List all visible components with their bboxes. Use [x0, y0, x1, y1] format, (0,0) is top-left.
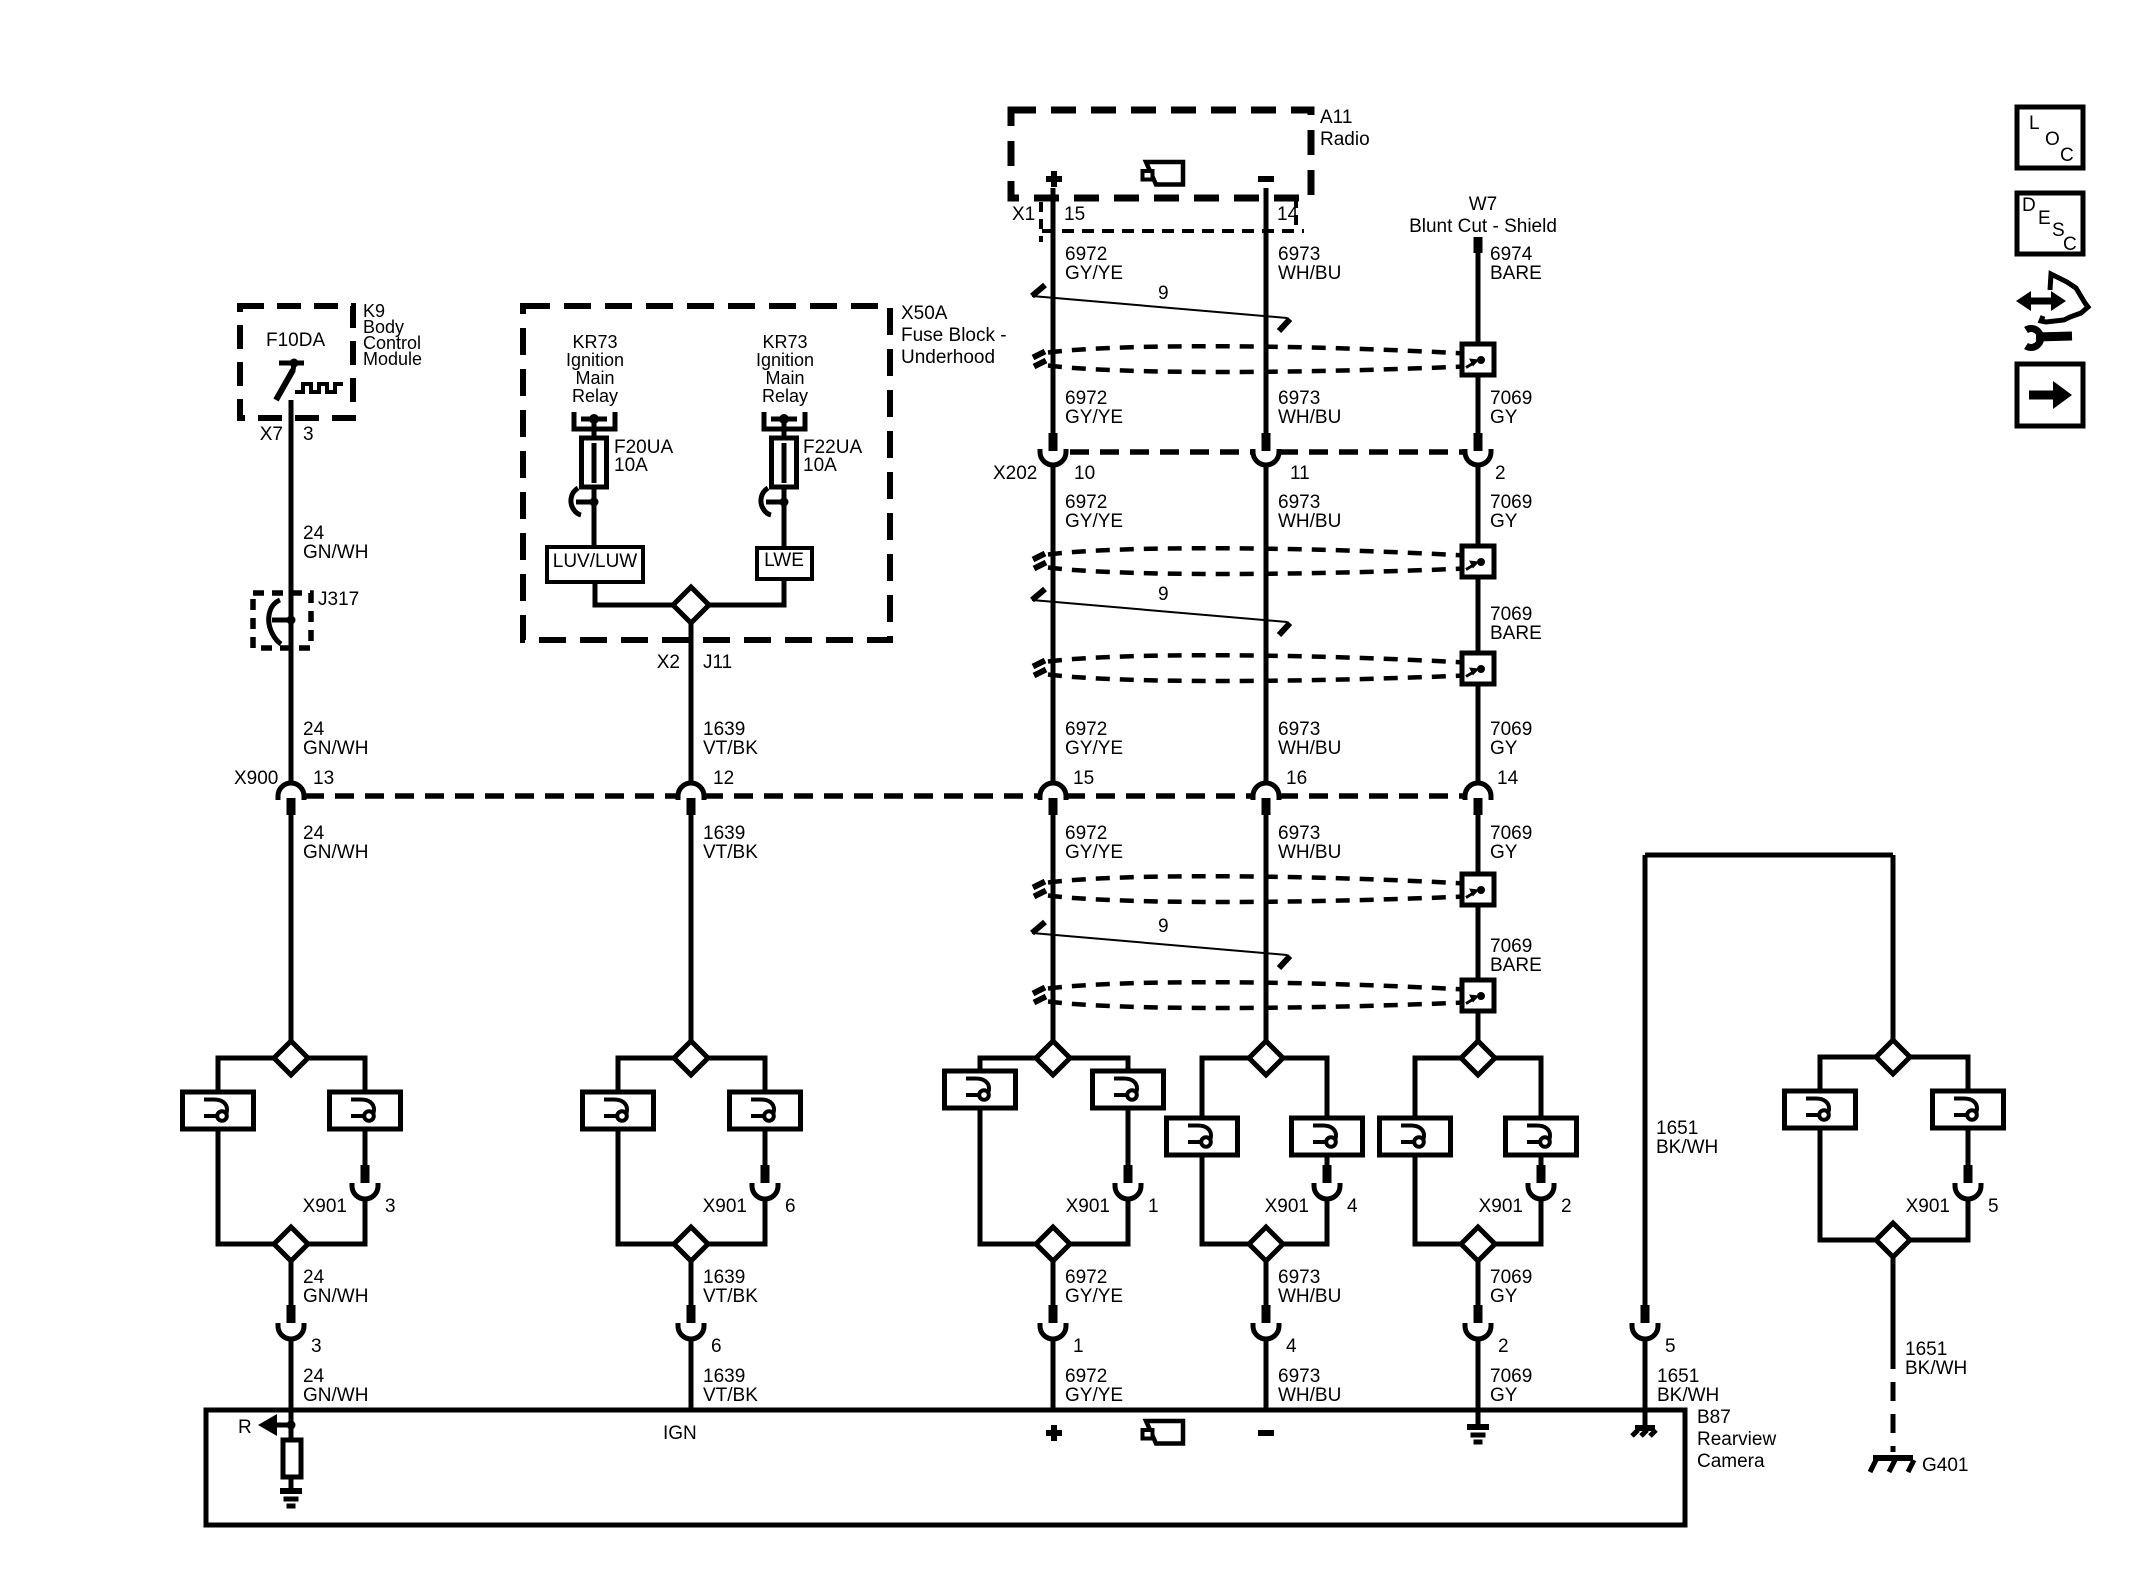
svg-text:GY: GY	[1490, 407, 1518, 428]
svg-text:1651: 1651	[1657, 1366, 1699, 1387]
svg-text:O: O	[2045, 129, 2060, 150]
wire merge diamond below X901 pin 4	[1249, 1227, 1283, 1261]
wire splice diamond above X901 group pin 2	[1461, 1041, 1495, 1075]
wire 1639 VT/BK to connector 6	[689, 1261, 694, 1305]
connector X900 pin 14	[1465, 783, 1491, 800]
wire LUV/LUW to splice diamond J11	[595, 582, 674, 605]
wire splice diamond above X901 group pin 6	[674, 1041, 708, 1075]
wire 1639 VT/BK into B87	[689, 1338, 694, 1412]
svg-text:GY/YE: GY/YE	[1065, 842, 1123, 863]
splice J317	[253, 593, 311, 648]
component box K9 Body Control Module	[240, 306, 353, 418]
wire merge diamond below X901 pin 3	[274, 1227, 308, 1261]
svg-text:X50A: X50A	[901, 303, 948, 324]
svg-text:24: 24	[303, 1267, 325, 1288]
svg-text:BK/WH: BK/WH	[1657, 1385, 1719, 1406]
svg-text:GN/WH: GN/WH	[303, 842, 368, 863]
svg-text:KR73: KR73	[572, 332, 617, 352]
in-line connector pin 1	[1049, 1305, 1058, 1323]
wire left branch down (pin 2 group)	[1415, 1155, 1461, 1244]
svg-text:6973: 6973	[1278, 719, 1320, 740]
wire 6972 GY/YE to connector 1	[1051, 1261, 1056, 1305]
wire below X901 pin 6	[708, 1199, 765, 1244]
svg-text:7069: 7069	[1490, 604, 1532, 625]
svg-text:GY/YE: GY/YE	[1065, 263, 1123, 284]
net box LWE	[757, 548, 812, 579]
svg-text:9: 9	[1158, 584, 1169, 605]
svg-text:GY/YE: GY/YE	[1065, 1385, 1123, 1406]
shield termination box 1	[1462, 344, 1494, 375]
svg-text:X901: X901	[1265, 1196, 1309, 1217]
svg-text:GY/YE: GY/YE	[1065, 407, 1123, 428]
connector X901 pin 1	[1124, 1165, 1133, 1183]
wire 6972 GY/YE X202 to X900	[1051, 465, 1056, 783]
wire right branch down to connector X901 pin 1	[1126, 1108, 1131, 1165]
svg-text:2: 2	[1561, 1196, 1572, 1217]
svg-text:GN/WH: GN/WH	[303, 542, 368, 563]
svg-text:6972: 6972	[1065, 1267, 1107, 1288]
twisted pair ellipse to shield 2	[1048, 548, 1465, 555]
wire 6972 GY/YE from A11 + terminal	[1051, 188, 1056, 433]
shield termination box 2	[1462, 546, 1494, 577]
svg-text:Ignition: Ignition	[756, 350, 814, 370]
icon DESC button	[2017, 193, 2083, 254]
terminal - inside B87	[1258, 1430, 1274, 1436]
svg-text:1639: 1639	[703, 719, 745, 740]
svg-text:GY/YE: GY/YE	[1065, 511, 1123, 532]
harness connector box right (pin 3 group)	[330, 1092, 401, 1129]
wire below X901 pin 3	[308, 1199, 365, 1244]
svg-text:6973: 6973	[1278, 1366, 1320, 1387]
connector X901 pin 6	[761, 1165, 770, 1183]
svg-text:1651: 1651	[1905, 1339, 1947, 1360]
svg-text:6: 6	[785, 1196, 796, 1217]
wire right branch to harness box (pin 4 group)	[1283, 1058, 1327, 1118]
svg-text:WH/BU: WH/BU	[1278, 263, 1341, 284]
svg-text:7069: 7069	[1490, 823, 1532, 844]
wire 1651 BK/WH below right splice	[1891, 1257, 1896, 1350]
harness connector box left (pin 3 group)	[183, 1092, 254, 1129]
svg-text:14: 14	[1497, 768, 1519, 789]
svg-text:6972: 6972	[1065, 1366, 1107, 1387]
harness connector box left (pin 6 group)	[583, 1092, 654, 1129]
harness connector box right (pin 1 group)	[1093, 1071, 1164, 1108]
svg-text:D: D	[2022, 195, 2036, 216]
svg-text:WH/BU: WH/BU	[1278, 738, 1341, 759]
svg-text:1639: 1639	[703, 823, 745, 844]
wire left branch to harness box (pin 5 group)	[1820, 1057, 1876, 1091]
ground G401	[1873, 1455, 1913, 1461]
wire fuse F22UA to LWE	[782, 502, 787, 548]
svg-text:1: 1	[1073, 1336, 1084, 1357]
svg-text:WH/BU: WH/BU	[1278, 1286, 1341, 1307]
component box B87 Rearview Camera	[206, 1410, 1685, 1525]
svg-text:X1: X1	[1012, 204, 1035, 225]
wire left branch to harness box (pin 2 group)	[1415, 1058, 1461, 1118]
svg-text:7069: 7069	[1490, 1267, 1532, 1288]
svg-text:1: 1	[1148, 1196, 1159, 1217]
svg-text:C: C	[2063, 234, 2077, 255]
connector X900 pin 15	[1040, 783, 1066, 800]
wire left branch to harness box (pin 3 group)	[218, 1058, 274, 1092]
svg-text:GY: GY	[1490, 842, 1518, 863]
resistor inside B87	[289, 1425, 294, 1440]
svg-text:VT/BK: VT/BK	[703, 842, 758, 863]
wire merge diamond below X901 pin 6	[674, 1227, 708, 1261]
svg-text:X901: X901	[1479, 1196, 1523, 1217]
twisted pair note 9 upper	[1032, 296, 1287, 318]
camera icon inside A11	[1146, 162, 1183, 185]
wire below X901 pin 1	[1070, 1199, 1128, 1244]
wire 6972 GY/YE X900 to splice	[1051, 815, 1056, 1041]
wire 6973 WH/BU X202 to X900	[1264, 465, 1269, 783]
svg-text:10A: 10A	[614, 455, 648, 476]
connector X202 pin 2	[1474, 433, 1483, 451]
svg-text:LWE: LWE	[764, 550, 804, 571]
wire 7069 GY into B87	[1476, 1338, 1481, 1412]
terminal + inside B87	[1046, 1430, 1062, 1436]
svg-text:7069: 7069	[1490, 388, 1532, 409]
chassis ground below 1651 BK/WH entry	[1643, 1412, 1648, 1427]
svg-text:VT/BK: VT/BK	[703, 1385, 758, 1406]
wire 1639 VT/BK X900 to splice	[689, 815, 694, 1041]
svg-text:7069: 7069	[1490, 719, 1532, 740]
svg-text:3: 3	[311, 1336, 322, 1357]
svg-text:W7: W7	[1469, 194, 1498, 215]
twisted pair ellipse to shield 1	[1048, 346, 1465, 353]
svg-text:GY: GY	[1490, 738, 1518, 759]
svg-text:LUV/LUW: LUV/LUW	[553, 551, 638, 572]
svg-text:X901: X901	[703, 1196, 747, 1217]
relay contact and fuse F22UA	[764, 412, 805, 429]
wire 7069 GY X900 to splice	[1476, 815, 1481, 1041]
svg-text:WH/BU: WH/BU	[1278, 842, 1341, 863]
svg-text:6: 6	[711, 1336, 722, 1357]
svg-text:GY: GY	[1490, 511, 1518, 532]
wire 24 GN/WH to connector 3	[289, 1261, 294, 1305]
svg-text:IGN: IGN	[663, 1423, 697, 1444]
svg-text:15: 15	[1064, 204, 1085, 225]
svg-text:J11: J11	[703, 652, 732, 673]
svg-text:7069: 7069	[1490, 936, 1532, 957]
wire 6973 WH/BU into B87	[1264, 1338, 1269, 1412]
wire below X901 pin 5	[1910, 1199, 1968, 1240]
terminal - inside A11	[1258, 176, 1274, 182]
component box X50A Fuse Block - Underhood	[523, 306, 890, 640]
svg-text:BARE: BARE	[1490, 263, 1542, 284]
svg-text:WH/BU: WH/BU	[1278, 407, 1341, 428]
wire below X901 pin 2	[1495, 1199, 1541, 1244]
connector band X900	[305, 793, 678, 799]
svg-text:KR73: KR73	[762, 332, 807, 352]
svg-text:3: 3	[385, 1196, 396, 1217]
fuse element F10DA symbol	[279, 361, 304, 366]
svg-text:Radio: Radio	[1320, 129, 1370, 150]
wire 6973 WH/BU X900 to splice	[1264, 815, 1269, 1041]
relay contact and fuse F20UA	[574, 412, 615, 429]
svg-text:3: 3	[303, 424, 314, 445]
svg-text:6974: 6974	[1490, 244, 1533, 265]
svg-text:6973: 6973	[1278, 388, 1320, 409]
svg-text:6972: 6972	[1065, 388, 1107, 409]
component box A11 Radio	[1011, 110, 1311, 198]
svg-text:X2: X2	[657, 652, 680, 673]
harness connector box left (pin 2 group)	[1380, 1118, 1451, 1155]
svg-text:GN/WH: GN/WH	[303, 738, 368, 759]
svg-text:X7: X7	[260, 424, 283, 445]
wire left branch down (pin 6 group)	[618, 1129, 674, 1244]
wire left branch to harness box (pin 4 group)	[1202, 1058, 1249, 1118]
svg-text:5: 5	[1665, 1336, 1676, 1357]
svg-text:6973: 6973	[1278, 492, 1320, 513]
svg-text:Camera: Camera	[1697, 1451, 1765, 1472]
twisted pair note 9 lower	[1032, 933, 1287, 955]
wire right branch to harness box (pin 2 group)	[1495, 1058, 1541, 1118]
connector X900 pin 12	[678, 783, 704, 800]
svg-text:X900: X900	[234, 768, 278, 789]
wire 7069 GY to connector 2	[1476, 1261, 1481, 1305]
svg-text:6972: 6972	[1065, 823, 1107, 844]
svg-text:9: 9	[1158, 283, 1169, 304]
twisted pair ellipse to shield 5	[1048, 982, 1465, 989]
connector X901 pin 4	[1323, 1165, 1332, 1183]
harness connector box right (pin 6 group)	[730, 1092, 801, 1129]
wire right branch down to connector X901 pin 4	[1325, 1155, 1330, 1165]
svg-text:15: 15	[1073, 768, 1094, 789]
wire 7069 GY X202 to X900	[1476, 465, 1481, 783]
splice diamond J11	[673, 587, 709, 623]
svg-text:Underhood: Underhood	[901, 347, 995, 368]
connector X901 pin 3	[361, 1165, 370, 1183]
wire J11 to X2 exit	[689, 623, 694, 783]
wire left branch to harness box (pin 6 group)	[618, 1058, 674, 1092]
wire LWE to splice diamond J11	[708, 579, 784, 605]
ground symbol inside B87 left	[289, 1477, 294, 1490]
svg-text:J317: J317	[318, 589, 359, 610]
svg-text:BARE: BARE	[1490, 623, 1542, 644]
wire 6973 WH/BU from A11 - terminal	[1264, 188, 1269, 433]
net box LUV/LUW	[547, 547, 643, 582]
svg-text:12: 12	[713, 768, 734, 789]
svg-text:6973: 6973	[1278, 244, 1320, 265]
harness connector box left (pin 1 group)	[945, 1071, 1016, 1108]
icon harness routing (arrows wrench)	[2031, 298, 2051, 305]
wire 1651 BK/WH left vertical	[1643, 855, 1648, 1305]
svg-text:1639: 1639	[703, 1267, 745, 1288]
svg-text:14: 14	[1277, 204, 1299, 225]
svg-text:BK/WH: BK/WH	[1656, 1137, 1718, 1158]
svg-text:6973: 6973	[1278, 1267, 1320, 1288]
connector band X1 of A11	[1042, 229, 1304, 233]
wire from F10DA to K9 box edge	[289, 400, 294, 418]
wire right branch down to connector X901 pin 6	[763, 1129, 768, 1165]
wire left branch down (pin 4 group)	[1202, 1155, 1249, 1244]
wire 24 GN/WH from K9 to X900	[289, 418, 294, 783]
svg-text:24: 24	[303, 1366, 325, 1387]
in-line connector pin 2	[1474, 1305, 1483, 1323]
svg-text:G401: G401	[1922, 1455, 1968, 1476]
connector X900 pin 16	[1253, 783, 1279, 800]
wire 1651 BK/WH into B87	[1643, 1338, 1648, 1412]
svg-text:X202: X202	[993, 463, 1037, 484]
wire 6972 GY/YE into B87	[1051, 1338, 1056, 1412]
svg-text:BK/WH: BK/WH	[1905, 1358, 1967, 1379]
svg-text:F10DA: F10DA	[266, 330, 325, 351]
svg-text:L: L	[2029, 113, 2040, 134]
connector X901 pin 5	[1964, 1165, 1973, 1183]
wire dashed to G401	[1891, 1350, 1896, 1452]
svg-text:A11: A11	[1320, 107, 1352, 128]
wire splice diamond above X901 group pin 5	[1876, 1040, 1910, 1074]
svg-text:Module: Module	[363, 349, 422, 369]
svg-text:2: 2	[1495, 463, 1506, 484]
harness connector box right (pin 2 group)	[1506, 1118, 1577, 1155]
svg-text:4: 4	[1286, 1336, 1297, 1357]
wire left branch down (pin 3 group)	[218, 1129, 274, 1244]
in-line connector pin 6	[687, 1305, 696, 1323]
svg-text:X901: X901	[1906, 1196, 1950, 1217]
svg-text:B87: B87	[1697, 1407, 1731, 1428]
svg-text:R: R	[238, 1417, 252, 1438]
svg-text:Fuse Block -: Fuse Block -	[901, 325, 1007, 346]
svg-text:13: 13	[313, 768, 334, 789]
camera icon inside B87	[1146, 1421, 1183, 1444]
svg-text:24: 24	[303, 823, 325, 844]
wire right branch vertical to splice	[1891, 855, 1896, 1040]
svg-text:7069: 7069	[1490, 492, 1532, 513]
svg-text:Relay: Relay	[572, 386, 618, 406]
harness connector box left (pin 4 group)	[1167, 1118, 1238, 1155]
svg-text:Blunt Cut - Shield: Blunt Cut - Shield	[1409, 216, 1557, 237]
shield termination box 5	[1462, 980, 1494, 1011]
wire merge diamond below X901 pin 1	[1036, 1227, 1070, 1261]
wire left branch down (pin 1 group)	[980, 1108, 1036, 1244]
svg-text:24: 24	[303, 719, 325, 740]
svg-text:WH/BU: WH/BU	[1278, 1385, 1341, 1406]
connector X900 pin 13	[278, 783, 304, 800]
wire splice diamond above X901 group pin 4	[1249, 1041, 1283, 1075]
svg-text:6972: 6972	[1065, 244, 1107, 265]
terminal + inside A11	[1046, 176, 1062, 182]
wire right branch to harness box (pin 6 group)	[708, 1058, 765, 1092]
svg-text:Main: Main	[765, 368, 804, 388]
svg-text:6972: 6972	[1065, 492, 1107, 513]
twisted pair note 9 middle	[1032, 600, 1287, 622]
svg-text:VT/BK: VT/BK	[703, 738, 758, 759]
svg-text:BARE: BARE	[1490, 955, 1542, 976]
svg-text:C: C	[2060, 145, 2074, 166]
svg-text:Ignition: Ignition	[566, 350, 624, 370]
shield termination box 3	[1462, 653, 1494, 684]
svg-text:1639: 1639	[703, 1366, 745, 1387]
wire right branch down to connector X901 pin 2	[1539, 1155, 1544, 1165]
icon next arrow button	[2017, 364, 2083, 426]
svg-text:10: 10	[1074, 463, 1095, 484]
svg-text:9: 9	[1158, 916, 1169, 937]
svg-text:X901: X901	[1066, 1196, 1110, 1217]
wire 24 GN/WH into B87	[289, 1338, 294, 1425]
svg-text:GY/YE: GY/YE	[1065, 738, 1123, 759]
wire 24 GN/WH X900 to splice	[289, 815, 294, 1041]
svg-text:E: E	[2038, 208, 2051, 229]
ground symbol below 7069 GY entry	[1476, 1412, 1481, 1426]
wire merge diamond below X901 pin 5	[1876, 1223, 1910, 1257]
wire right branch to harness box (pin 3 group)	[308, 1058, 365, 1092]
in-line connector pin 5	[1641, 1305, 1650, 1323]
wire fuse F20UA to LUV/LUW	[592, 502, 597, 547]
svg-text:VT/BK: VT/BK	[703, 1286, 758, 1307]
svg-text:6973: 6973	[1278, 823, 1320, 844]
svg-text:Relay: Relay	[762, 386, 808, 406]
wire right branch to harness box (pin 5 group)	[1910, 1057, 1968, 1091]
harness connector box right (pin 4 group)	[1292, 1118, 1363, 1155]
svg-text:GY: GY	[1490, 1286, 1518, 1307]
connector band X202	[1070, 449, 1253, 455]
icon LOC button	[2017, 107, 2083, 168]
svg-text:1651: 1651	[1656, 1118, 1698, 1139]
wire 1651 BK/WH top horizontal	[1645, 853, 1893, 858]
wire below X901 pin 4	[1283, 1199, 1327, 1244]
svg-text:2: 2	[1498, 1336, 1509, 1357]
svg-text:Main: Main	[575, 368, 614, 388]
in-line connector pin 4	[1262, 1305, 1271, 1323]
svg-text:WH/BU: WH/BU	[1278, 511, 1341, 532]
wire right branch down to connector X901 pin 5	[1966, 1128, 1971, 1165]
svg-text:GY: GY	[1490, 1385, 1518, 1406]
svg-text:24: 24	[303, 523, 325, 544]
wire left branch down (pin 5 group)	[1820, 1128, 1876, 1240]
svg-text:6972: 6972	[1065, 719, 1107, 740]
svg-text:11: 11	[1290, 463, 1310, 484]
connector X202 pin 10	[1049, 433, 1058, 451]
wire right branch down to connector X901 pin 3	[363, 1129, 368, 1165]
svg-text:16: 16	[1286, 768, 1307, 789]
twisted pair ellipse to shield 3	[1048, 655, 1465, 662]
connector X202 pin 11	[1262, 433, 1271, 451]
wire 6973 WH/BU to connector 4	[1264, 1261, 1269, 1305]
in-line connector pin 3	[287, 1305, 296, 1323]
harness connector box left (pin 5 group)	[1785, 1091, 1856, 1128]
connector X901 pin 2	[1537, 1165, 1546, 1183]
svg-text:GY/YE: GY/YE	[1065, 1286, 1123, 1307]
harness connector box right (pin 5 group)	[1933, 1091, 2004, 1128]
svg-text:GN/WH: GN/WH	[303, 1286, 368, 1307]
wire left branch to harness box (pin 1 group)	[980, 1058, 1036, 1071]
wire merge diamond below X901 pin 2	[1461, 1227, 1495, 1261]
svg-text:X901: X901	[303, 1196, 347, 1217]
wire splice diamond above X901 group pin 1	[1036, 1041, 1070, 1075]
svg-text:5: 5	[1988, 1196, 1999, 1217]
svg-text:4: 4	[1347, 1196, 1358, 1217]
wire right branch to harness box (pin 1 group)	[1070, 1058, 1128, 1071]
svg-text:7069: 7069	[1490, 1366, 1532, 1387]
shield termination box 4	[1462, 874, 1494, 905]
svg-text:10A: 10A	[803, 455, 837, 476]
svg-text:Rearview: Rearview	[1697, 1429, 1776, 1450]
svg-text:GN/WH: GN/WH	[303, 1385, 368, 1406]
wire splice diamond above X901 group pin 3	[274, 1041, 308, 1075]
twisted pair ellipse to shield 4	[1048, 876, 1465, 883]
